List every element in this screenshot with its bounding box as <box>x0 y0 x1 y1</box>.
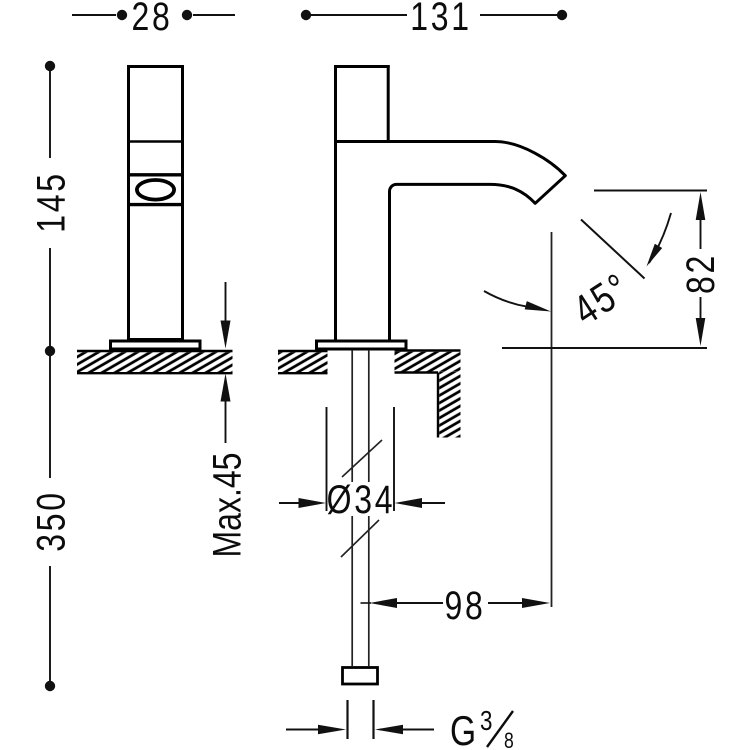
dimension 98 line right segment <box>488 602 522 604</box>
dimension 82 top arrowhead <box>696 192 706 220</box>
outlet centerline <box>551 232 553 607</box>
thread G3/8 right tick <box>372 700 374 739</box>
counter right column left edge <box>437 373 439 438</box>
svg-text:8: 8 <box>504 729 514 750</box>
faucet side view spout tip face <box>535 176 565 204</box>
svg-text:82: 82 <box>678 253 723 294</box>
faucet front view base plate <box>111 341 201 349</box>
svg-text:Ø34: Ø34 <box>327 477 396 522</box>
thread G3/8 left arrow line <box>286 729 320 731</box>
faucet side view body left edge <box>334 65 337 341</box>
counter left band top edge <box>77 350 233 352</box>
dimension 131 right dot <box>557 10 567 20</box>
45 degree left curved arrow arc <box>484 291 528 307</box>
faucet front view body <box>129 67 183 340</box>
dimension 98 right arrowhead <box>522 598 550 608</box>
thread G3/8 right arrowhead <box>375 725 403 735</box>
faucet front view ring section bottom line <box>127 203 184 206</box>
dimension 145 line upper segment <box>49 71 51 158</box>
counter left band hatching <box>77 352 233 372</box>
faucet side view spout bottom edge <box>390 184 536 341</box>
faucet front view handle ellipse <box>137 180 174 200</box>
counter left band bottom edge <box>77 372 233 374</box>
dimension Max.45 lower arrow line <box>225 398 227 443</box>
counter middle band hatching <box>278 352 328 372</box>
dimension 82 top extension line <box>594 190 707 192</box>
dimension Max.45 upper arrow line <box>225 282 227 325</box>
dimension Max.45 lower arrowhead <box>221 374 231 402</box>
dimension 350 line upper segment <box>49 356 51 478</box>
dimension 350 line lower segment <box>49 566 51 681</box>
pipe end fitting <box>343 668 378 685</box>
svg-text:145: 145 <box>28 171 73 233</box>
faucet side view base plate <box>317 341 407 349</box>
thread G3/8 left tick <box>346 700 348 739</box>
dimension 145/350 shared dot <box>45 346 55 356</box>
counter right band bottom edge <box>395 371 439 373</box>
svg-text:3: 3 <box>480 706 492 737</box>
dimension 28 right dot <box>182 10 192 20</box>
faucet side view body right edge upper <box>387 65 390 142</box>
dimension 28 line right segment <box>193 14 235 16</box>
faucet side view body top edge <box>334 65 390 68</box>
svg-text:350: 350 <box>28 490 73 552</box>
dimension 145 top dot <box>45 61 55 71</box>
dimension O34 left arrowhead <box>299 498 327 508</box>
svg-text:G: G <box>450 709 476 750</box>
45 degree left curved arrowhead <box>525 301 551 311</box>
dimension Max.45 upper arrowhead <box>221 321 231 349</box>
dimension 98 left arrowhead <box>370 598 398 608</box>
dimension O34 left extension line <box>326 407 328 511</box>
pipe break slash lower <box>341 520 379 557</box>
thread G3/8 left arrowhead <box>318 725 346 735</box>
counter right column hatching <box>439 372 460 438</box>
dimension 98 left stub <box>361 602 372 604</box>
dimension 28 line left segment <box>72 14 116 16</box>
thread G3/8 label fraction slash <box>487 711 513 747</box>
dimension 131 line left segment <box>311 14 407 16</box>
svg-text:28: 28 <box>131 0 172 39</box>
pipe break slash upper <box>342 440 382 477</box>
dimension 350 bottom dot <box>45 681 55 691</box>
dimension 131 line right segment <box>480 14 557 16</box>
faucet front view upper joint line <box>127 140 184 143</box>
svg-text:131: 131 <box>410 0 472 39</box>
svg-text:Max.45: Max.45 <box>204 453 249 558</box>
dimension 131 left dot <box>301 10 311 20</box>
dimension 145 line lower segment <box>49 248 51 346</box>
45 degree right curved arrowhead <box>647 244 663 267</box>
supply pipe right edge <box>368 350 370 666</box>
dimension 98 line left segment <box>397 602 443 604</box>
dimension 82 line upper segment <box>700 218 702 249</box>
faucet side view spout top edge <box>334 142 565 176</box>
counter middle band bottom edge <box>278 372 328 374</box>
counter right band hatching <box>395 352 461 372</box>
thread G3/8 right arrow line <box>403 729 434 731</box>
dimension O34 right arrowhead <box>395 498 423 508</box>
faucet front view ring section top line <box>127 173 184 176</box>
counter middle band top edge <box>278 350 328 352</box>
dimension 28 left dot <box>117 10 127 20</box>
dimension O34 left arrow line <box>279 502 300 504</box>
dimension O34 right extension line <box>393 407 395 511</box>
dimension 82 bottom extension line <box>502 347 707 349</box>
dimension O34 label mask <box>330 482 392 516</box>
45 degree right curved arrow arc <box>649 213 671 263</box>
dimension 82 line lower segment <box>700 297 702 320</box>
dimension 82 bottom arrowhead <box>696 318 706 346</box>
svg-text:98: 98 <box>444 583 485 628</box>
supply pipe left edge <box>351 350 353 666</box>
counter right band top edge <box>395 349 461 351</box>
dimension O34 right arrow line <box>422 502 445 504</box>
45 degree reference line <box>581 220 645 279</box>
